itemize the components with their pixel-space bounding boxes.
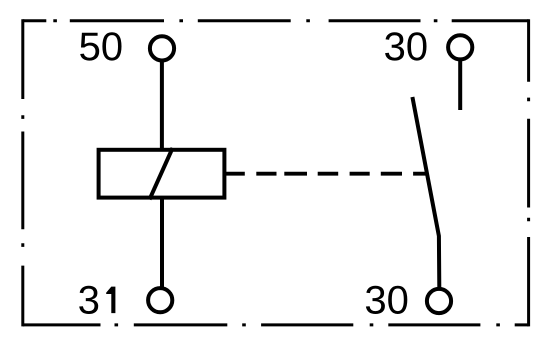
dashed mechanical link: coil armature to switch blade <box>224 172 427 176</box>
terminal label 30 (bottom) <box>366 286 407 314</box>
terminal 50 (open circle) <box>150 36 174 60</box>
terminal 30 bottom (open circle) <box>427 289 451 313</box>
terminal label 50 <box>80 32 121 60</box>
wire: terminal 50 to coil top <box>160 61 164 152</box>
wire: coil bottom to terminal 31 <box>160 196 164 288</box>
relay coil K (rectangle with diagonal stroke) <box>99 148 225 199</box>
terminal 31 (open circle) <box>148 288 172 312</box>
terminal label 30 (top) <box>385 32 426 60</box>
terminal 30 top (open circle) <box>448 35 472 59</box>
switch blade (movable contact) <box>412 97 439 288</box>
wire: terminal 30 top stationary contact stub <box>458 60 462 111</box>
terminal label 31 <box>79 286 115 314</box>
